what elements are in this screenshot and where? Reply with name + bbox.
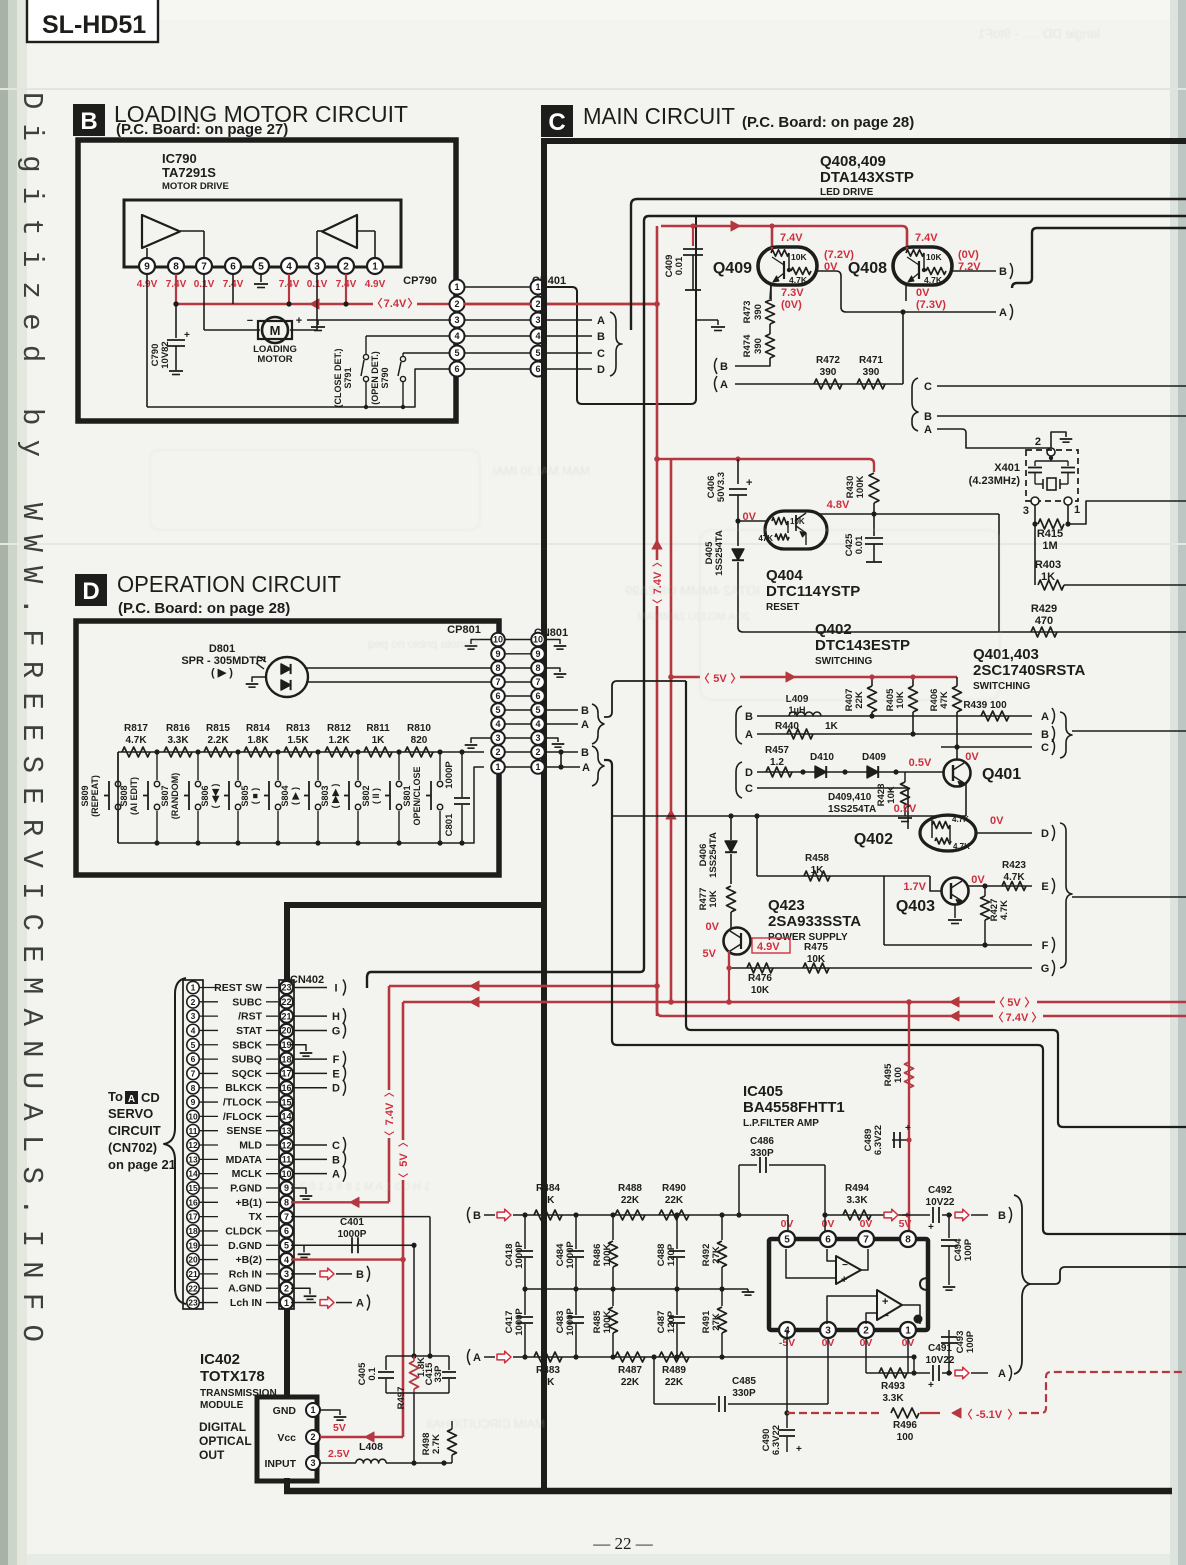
resistor row line bbox=[118, 751, 484, 753]
svg-text:1SS254TA: 1SS254TA bbox=[714, 530, 725, 576]
resistor R415 bbox=[1034, 505, 1036, 524]
svg-text:D: D bbox=[332, 1083, 340, 1095]
svg-text:〈: 〈 bbox=[651, 599, 664, 609]
svg-text:A: A bbox=[745, 729, 753, 741]
R486 vertical bbox=[610, 1212, 615, 1217]
CP801 left stubs and grounds bbox=[471, 640, 491, 645]
svg-text:Q403: Q403 bbox=[896, 898, 935, 915]
svg-text:10K: 10K bbox=[926, 252, 942, 262]
svg-text:CLDCK: CLDCK bbox=[225, 1225, 262, 1237]
svg-text:SERVO: SERVO bbox=[108, 1106, 153, 1121]
svg-text:3: 3 bbox=[1023, 505, 1029, 517]
transistor Q408 bbox=[893, 247, 952, 285]
svg-text:Q401: Q401 bbox=[982, 766, 1021, 783]
5V branch to switching network bbox=[671, 676, 957, 678]
5V red rail vertical bbox=[670, 459, 673, 1002]
svg-text:( ■ ): ( ■ ) bbox=[250, 788, 260, 804]
svg-text:A.GND: A.GND bbox=[228, 1283, 262, 1295]
svg-text:R474: R474 bbox=[742, 334, 753, 357]
svg-text:A: A bbox=[581, 719, 589, 731]
capacitor C493 bbox=[946, 1370, 951, 1375]
D801 output wires bbox=[306, 667, 491, 669]
svg-text:CN402: CN402 bbox=[290, 974, 324, 986]
svg-text:0.1: 0.1 bbox=[367, 1367, 378, 1381]
photo diode D801 bbox=[266, 657, 308, 697]
resistor R477 bbox=[730, 854, 732, 884]
svg-text:A: A bbox=[1041, 711, 1049, 723]
svg-text:P.GND: P.GND bbox=[230, 1182, 262, 1194]
svg-text:1000P: 1000P bbox=[514, 1308, 525, 1336]
svg-text:L.P.FILTER AMP: L.P.FILTER AMP bbox=[743, 1118, 819, 1129]
Q404 line to right bbox=[998, 514, 1000, 632]
svg-text:2: 2 bbox=[535, 299, 540, 309]
svg-text:1: 1 bbox=[535, 762, 540, 772]
svg-text:5: 5 bbox=[784, 1235, 790, 1246]
red risers to CN402 bbox=[388, 986, 391, 1202]
line C bbox=[941, 746, 1032, 748]
switch S791 CLOSE DET bbox=[366, 335, 451, 337]
red wire +B(2) bbox=[291, 1258, 403, 1260]
svg-text:A: A bbox=[332, 1169, 340, 1181]
svg-text:10: 10 bbox=[493, 635, 503, 645]
svg-text:R814: R814 bbox=[246, 723, 270, 734]
svg-text:12: 12 bbox=[188, 1140, 198, 1150]
svg-text:BLKCK: BLKCK bbox=[225, 1082, 262, 1094]
svg-text:7.4V: 7.4V bbox=[384, 298, 407, 310]
svg-text:〉: 〉 bbox=[397, 1137, 410, 1147]
svg-text:OPTICAL: OPTICAL bbox=[199, 1434, 252, 1448]
inner rounded line 1 bbox=[631, 199, 1186, 330]
svg-text:R489: R489 bbox=[662, 1365, 686, 1376]
CN402 right wires letters and grounds bbox=[294, 987, 327, 989]
wire A-line up to A output bbox=[902, 312, 904, 384]
svg-text:2: 2 bbox=[191, 997, 196, 1007]
svg-text:1: 1 bbox=[191, 983, 196, 993]
Q404 collector line bbox=[806, 513, 999, 515]
diode D410 bbox=[815, 766, 826, 778]
svg-text:TA7291S: TA7291S bbox=[162, 165, 216, 180]
svg-text:SWITCHING: SWITCHING bbox=[815, 656, 872, 667]
svg-text:0V: 0V bbox=[706, 921, 720, 933]
svg-text:7: 7 bbox=[284, 1212, 289, 1222]
svg-text:STAT: STAT bbox=[236, 1025, 262, 1037]
svg-text:3: 3 bbox=[454, 315, 459, 325]
svg-text:8: 8 bbox=[495, 663, 500, 673]
svg-text:OUT: OUT bbox=[199, 1448, 225, 1462]
svg-text:Q402: Q402 bbox=[854, 831, 893, 848]
svg-text:C: C bbox=[597, 348, 605, 360]
svg-text:MAIM CIRCUIT/CHA8: MAIM CIRCUIT/CHA8 bbox=[426, 1417, 545, 1431]
diode D405 bbox=[738, 520, 767, 522]
7.4V red rail vertical bbox=[656, 226, 659, 1016]
svg-text:390: 390 bbox=[753, 338, 764, 354]
svg-text:7.4V: 7.4V bbox=[384, 1102, 396, 1125]
svg-text:R475: R475 bbox=[804, 942, 828, 953]
svg-text:C492: C492 bbox=[928, 1185, 952, 1196]
svg-text:〉: 〉 bbox=[408, 297, 419, 310]
svg-text:R488: R488 bbox=[618, 1183, 642, 1194]
thick bus bar CN402 to IC402 bbox=[284, 966, 290, 983]
svg-text:4.8V: 4.8V bbox=[827, 499, 850, 511]
svg-text:0V: 0V bbox=[916, 287, 930, 299]
CN801 row3 ground bbox=[545, 738, 558, 742]
svg-text:22K: 22K bbox=[665, 1195, 684, 1206]
ground pin5 bbox=[260, 274, 262, 282]
svg-text:〉: 〉 bbox=[1025, 996, 1036, 1009]
svg-text:Rch IN: Rch IN bbox=[229, 1268, 262, 1280]
svg-text:100P: 100P bbox=[963, 1238, 974, 1261]
svg-text:120P: 120P bbox=[666, 1243, 677, 1266]
svg-text:6: 6 bbox=[535, 691, 540, 701]
CN801 pin2 pin1 wires rows 2 1 bbox=[545, 751, 578, 753]
svg-text:Vcc: Vcc bbox=[277, 1432, 296, 1444]
svg-text:0.01: 0.01 bbox=[674, 256, 685, 275]
svg-text:50V3.3: 50V3.3 bbox=[716, 472, 727, 502]
svg-text:S803: S803 bbox=[320, 785, 330, 806]
svg-text:Q408,409: Q408,409 bbox=[820, 153, 886, 170]
svg-text:Q409: Q409 bbox=[713, 260, 752, 277]
svg-text:S801: S801 bbox=[402, 785, 412, 806]
svg-text:0.5V: 0.5V bbox=[909, 757, 932, 769]
svg-text:S804: S804 bbox=[280, 785, 290, 806]
svg-text:R494: R494 bbox=[845, 1183, 869, 1194]
svg-text:langie DD …. - 9toF1: langie DD …. - 9toF1 bbox=[978, 26, 1100, 41]
A B C brace to right edge bbox=[1060, 712, 1072, 758]
svg-text:B: B bbox=[1041, 729, 1049, 741]
CN401 pin2 red wire bbox=[545, 303, 658, 306]
svg-text:CIRCUIT: CIRCUIT bbox=[108, 1123, 161, 1138]
svg-text:7.4V: 7.4V bbox=[780, 232, 803, 244]
red R495 line to pin8 bbox=[908, 1002, 910, 1231]
Q423 emitter red wire down bbox=[728, 951, 730, 1002]
svg-text:6: 6 bbox=[495, 691, 500, 701]
svg-text:REST SW: REST SW bbox=[214, 982, 262, 994]
svg-text:4: 4 bbox=[535, 331, 540, 341]
svg-text:MODULE: MODULE bbox=[200, 1400, 244, 1411]
svg-text:〉: 〉 bbox=[731, 672, 742, 685]
svg-text:3: 3 bbox=[191, 1011, 196, 1021]
switch S806 bbox=[235, 749, 240, 754]
svg-text:( ◀◀ ): ( ◀◀ ) bbox=[210, 784, 220, 809]
svg-text:2: 2 bbox=[310, 1432, 315, 1442]
svg-text:12: 12 bbox=[281, 1140, 291, 1150]
svg-text:10: 10 bbox=[188, 1111, 198, 1121]
svg-text:1000P: 1000P bbox=[565, 1241, 576, 1269]
svg-text:A: A bbox=[998, 1368, 1006, 1380]
svg-text:1.5K: 1.5K bbox=[287, 735, 309, 746]
svg-text:B: B bbox=[332, 1154, 340, 1166]
svg-text:4: 4 bbox=[535, 719, 540, 729]
svg-text:M: M bbox=[270, 323, 281, 338]
svg-text:OPEN/CLOSE: OPEN/CLOSE bbox=[412, 766, 422, 825]
svg-text:E: E bbox=[332, 1068, 339, 1080]
svg-text:IC402: IC402 bbox=[200, 1351, 240, 1368]
CN402 row 4 STAT bbox=[187, 1024, 199, 1036]
svg-text:20: 20 bbox=[188, 1255, 198, 1265]
svg-text:100K: 100K bbox=[602, 1311, 613, 1334]
Q401 emitter to 816 line bbox=[965, 783, 967, 816]
svg-text:390: 390 bbox=[863, 367, 880, 378]
switch bus bottom bbox=[118, 842, 462, 844]
svg-text:H: H bbox=[332, 1011, 340, 1023]
svg-text:4.9V: 4.9V bbox=[757, 941, 780, 953]
IC402 GND ground bbox=[320, 1410, 340, 1415]
capacitor C406 bbox=[735, 456, 740, 461]
svg-text:SQCK: SQCK bbox=[232, 1068, 263, 1080]
svg-text:〉: 〉 bbox=[651, 557, 664, 567]
svg-text:C: C bbox=[332, 1140, 340, 1152]
svg-text:−: − bbox=[247, 315, 253, 327]
svg-text:(OPEN DET.): (OPEN DET.) bbox=[370, 351, 380, 405]
CN402 connector bodies bbox=[183, 980, 203, 1309]
svg-text:2.7K: 2.7K bbox=[431, 1434, 442, 1454]
svg-text:+: + bbox=[746, 477, 752, 489]
C485 branch bbox=[651, 1354, 656, 1359]
svg-text:S808: S808 bbox=[119, 785, 129, 806]
svg-text:D410: D410 bbox=[810, 752, 834, 763]
svg-text:C401: C401 bbox=[340, 1217, 364, 1228]
svg-text:100K: 100K bbox=[602, 1244, 613, 1267]
wire to F line bbox=[883, 876, 885, 945]
svg-text:R810: R810 bbox=[407, 723, 431, 734]
svg-text:IC405: IC405 bbox=[743, 1083, 783, 1100]
svg-text:INPUT: INPUT bbox=[265, 1458, 297, 1470]
svg-text:0V: 0V bbox=[822, 1218, 835, 1230]
svg-text:B: B bbox=[998, 1210, 1006, 1222]
svg-text:on page 21: on page 21 bbox=[108, 1157, 176, 1172]
svg-text:Digitized by WWW.FREESERVICEMA: Digitized by WWW.FREESERVICEMANUALS.INFO bbox=[15, 92, 48, 1356]
svg-text:B: B bbox=[999, 266, 1007, 278]
svg-text:6: 6 bbox=[230, 262, 236, 273]
svg-text:14: 14 bbox=[188, 1169, 198, 1179]
svg-text:R473: R473 bbox=[742, 301, 753, 324]
IC405 box bbox=[769, 1239, 928, 1330]
svg-text:( ▶ ): ( ▶ ) bbox=[290, 787, 300, 805]
svg-text:22K: 22K bbox=[621, 1195, 640, 1206]
svg-text:MCLK: MCLK bbox=[232, 1168, 263, 1180]
svg-text:TX: TX bbox=[249, 1211, 262, 1223]
svg-text:DTC143ESTP: DTC143ESTP bbox=[815, 637, 910, 654]
7.4V bus in section B bbox=[175, 274, 177, 304]
svg-text:330P: 330P bbox=[750, 1148, 774, 1159]
CN402 row 13 MDATA bbox=[187, 1153, 199, 1165]
svg-text:R815: R815 bbox=[206, 723, 230, 734]
svg-text:4.7K: 4.7K bbox=[789, 275, 808, 285]
svg-text:D409,410: D409,410 bbox=[828, 792, 872, 803]
F line bbox=[884, 944, 1032, 946]
svg-text:5: 5 bbox=[495, 705, 500, 715]
svg-text:OPERATION CIRCUIT: OPERATION CIRCUIT bbox=[117, 571, 341, 597]
svg-text:D: D bbox=[82, 578, 99, 605]
svg-text:R812: R812 bbox=[327, 723, 351, 734]
svg-text:10: 10 bbox=[533, 635, 543, 645]
svg-text:3: 3 bbox=[310, 1458, 315, 1468]
svg-text:+: + bbox=[184, 330, 190, 341]
svg-text:390: 390 bbox=[753, 304, 764, 320]
svg-text:13: 13 bbox=[281, 1126, 291, 1136]
svg-text:(RANDOM): (RANDOM) bbox=[170, 773, 180, 820]
svg-text:6: 6 bbox=[191, 1054, 196, 1064]
wires pins to motor bbox=[146, 274, 148, 407]
svg-text:7.4V: 7.4V bbox=[1006, 1012, 1029, 1024]
svg-text:0.01: 0.01 bbox=[854, 535, 865, 554]
svg-text:/FLOCK: /FLOCK bbox=[223, 1111, 262, 1123]
svg-text:1SS254TA: 1SS254TA bbox=[828, 804, 876, 815]
svg-text:1K: 1K bbox=[542, 1377, 556, 1388]
svg-text:TOTX178: TOTX178 bbox=[200, 1368, 265, 1385]
Q402 to D bbox=[976, 832, 1032, 834]
svg-text:CD: CD bbox=[141, 1090, 160, 1105]
svg-text:(CN702): (CN702) bbox=[108, 1140, 157, 1155]
CN402 row 18 CLDCK bbox=[187, 1225, 199, 1237]
svg-text:6: 6 bbox=[454, 364, 459, 374]
wire C801 to CN801 pin1 bbox=[462, 767, 484, 843]
svg-text:100K: 100K bbox=[855, 476, 866, 499]
svg-text:1000P: 1000P bbox=[514, 1241, 525, 1269]
switch S808 bbox=[154, 749, 159, 754]
svg-text:0V: 0V bbox=[824, 261, 838, 273]
svg-text:B: B bbox=[597, 331, 605, 343]
crystal element bbox=[1047, 478, 1056, 490]
svg-text:13: 13 bbox=[188, 1154, 198, 1164]
svg-text:17: 17 bbox=[281, 1069, 291, 1079]
transistor Q401 bbox=[956, 712, 958, 747]
svg-text:(P.C. Board: on page 28): (P.C. Board: on page 28) bbox=[742, 114, 914, 131]
svg-text:4: 4 bbox=[286, 262, 292, 273]
svg-text:SPR - 305MDTF: SPR - 305MDTF bbox=[181, 655, 263, 667]
C483 vertical bbox=[573, 1354, 578, 1359]
Q423 transistor circle bbox=[724, 928, 751, 955]
switch S807 bbox=[195, 749, 200, 754]
svg-text:7: 7 bbox=[863, 1235, 869, 1246]
svg-text:B: B bbox=[356, 1269, 364, 1281]
svg-text:3: 3 bbox=[284, 1269, 289, 1279]
svg-text:2: 2 bbox=[535, 747, 540, 757]
black lines to right lower area bbox=[604, 760, 1186, 1234]
switch S801 bbox=[437, 749, 442, 754]
R423 and E line bbox=[968, 885, 1032, 887]
svg-text:5: 5 bbox=[191, 1040, 196, 1050]
CN402 row 21 Rch IN bbox=[187, 1268, 199, 1280]
svg-text:9: 9 bbox=[495, 649, 500, 659]
svg-text:C801: C801 bbox=[444, 813, 455, 836]
CN402 row 15 P.GND bbox=[187, 1182, 199, 1194]
svg-text:(0V): (0V) bbox=[958, 249, 979, 261]
D405 wire down to R429 line bbox=[738, 562, 743, 632]
R494 output line bbox=[825, 1214, 908, 1216]
inner rounded line 2 bbox=[644, 216, 1186, 221]
svg-text:21: 21 bbox=[188, 1269, 198, 1279]
svg-text:R487: R487 bbox=[618, 1365, 642, 1376]
R485 vertical bbox=[610, 1354, 615, 1359]
svg-text:R811: R811 bbox=[366, 723, 390, 734]
resistor R429 bbox=[743, 631, 1186, 633]
svg-text:10V22: 10V22 bbox=[926, 1197, 955, 1208]
transistor Q402 second bbox=[920, 815, 976, 851]
svg-text:C485: C485 bbox=[732, 1376, 756, 1387]
svg-text:G: G bbox=[1041, 963, 1050, 975]
svg-text:6: 6 bbox=[825, 1235, 831, 1246]
ground row5 SBCK bbox=[291, 1045, 306, 1051]
section B border box bbox=[78, 140, 456, 421]
ground near CN401 pin3 right bbox=[696, 319, 718, 321]
svg-text:R490: R490 bbox=[662, 1183, 686, 1194]
svg-text:〈: 〈 bbox=[993, 1011, 1004, 1024]
svg-text:5V: 5V bbox=[1007, 997, 1021, 1009]
svg-text:18: 18 bbox=[188, 1226, 198, 1236]
svg-text:R497: R497 bbox=[396, 1387, 407, 1410]
CN402 row 19 D.GND bbox=[187, 1239, 199, 1251]
svg-text:19: 19 bbox=[281, 1040, 291, 1050]
svg-text:R816: R816 bbox=[166, 723, 190, 734]
svg-text:1: 1 bbox=[1074, 504, 1080, 516]
svg-text:S802: S802 bbox=[361, 785, 371, 806]
svg-text:1.7V: 1.7V bbox=[903, 881, 926, 893]
line A with R440 bbox=[757, 733, 1032, 735]
red wire to Q404 C406 R430 bbox=[657, 458, 671, 460]
svg-text:MAIN CIRCUIT: MAIN CIRCUIT bbox=[583, 103, 735, 129]
svg-text:4: 4 bbox=[284, 1255, 289, 1265]
svg-text:R439 100: R439 100 bbox=[963, 700, 1007, 711]
ground row19 D.GND bbox=[303, 1245, 305, 1252]
X401 dashed box bbox=[1026, 450, 1078, 501]
svg-text:1: 1 bbox=[310, 1405, 315, 1415]
svg-text:+: + bbox=[296, 315, 302, 327]
svg-text:S806: S806 bbox=[200, 785, 210, 806]
svg-text:0V: 0V bbox=[860, 1218, 873, 1230]
switch S802 bbox=[396, 749, 401, 754]
svg-text:14: 14 bbox=[281, 1112, 291, 1122]
svg-text:B: B bbox=[720, 361, 728, 373]
CN402 row 16 +B(1) bbox=[187, 1196, 199, 1208]
svg-text:1 H 0 3 1 A M 1 8 6 1 1 0 3: 1 H 0 3 1 A M 1 8 6 1 1 0 3 8 1 bbox=[281, 1181, 430, 1193]
resistor R428 bbox=[893, 769, 898, 774]
svg-text:7: 7 bbox=[191, 1068, 196, 1078]
svg-text:22: 22 bbox=[281, 997, 291, 1007]
svg-text:Q423: Q423 bbox=[768, 897, 805, 914]
svg-text:4.7K: 4.7K bbox=[125, 735, 147, 746]
crystal internal capacitors bbox=[1050, 456, 1052, 461]
G line with R475 R476 bbox=[729, 967, 1032, 969]
svg-text:5V: 5V bbox=[899, 1218, 912, 1230]
CN402 big brace bbox=[164, 978, 186, 1304]
svg-text:R403: R403 bbox=[1035, 559, 1061, 571]
svg-text:( ▶▶ ): ( ▶▶ ) bbox=[330, 784, 340, 809]
switch S805 bbox=[275, 749, 280, 754]
svg-text:10K: 10K bbox=[751, 985, 770, 996]
svg-text:B: B bbox=[581, 705, 589, 717]
svg-text:CP790: CP790 bbox=[403, 275, 437, 287]
svg-text:5V: 5V bbox=[713, 673, 727, 685]
svg-text:16: 16 bbox=[281, 1083, 291, 1093]
CN402 row 14 MCLK bbox=[187, 1167, 199, 1179]
svg-text:SUBQ: SUBQ bbox=[232, 1054, 262, 1066]
svg-text:1.8K: 1.8K bbox=[247, 735, 269, 746]
svg-text:0V: 0V bbox=[781, 1218, 794, 1230]
svg-text:19: 19 bbox=[188, 1240, 198, 1250]
R493 line bbox=[865, 1338, 867, 1373]
svg-text:Q401,403: Q401,403 bbox=[973, 646, 1039, 663]
svg-text:3: 3 bbox=[825, 1326, 831, 1337]
svg-text:( ▶ ): ( ▶ ) bbox=[211, 667, 233, 679]
section D border box bbox=[76, 621, 499, 875]
svg-text:11: 11 bbox=[282, 1155, 292, 1165]
C484 vertical bbox=[573, 1212, 578, 1217]
riser to pin5 bbox=[787, 1215, 789, 1231]
svg-text:SBCK: SBCK bbox=[232, 1039, 262, 1051]
CN402 row 12 MLD bbox=[187, 1139, 199, 1151]
svg-text:LED DRIVE: LED DRIVE bbox=[820, 187, 874, 198]
